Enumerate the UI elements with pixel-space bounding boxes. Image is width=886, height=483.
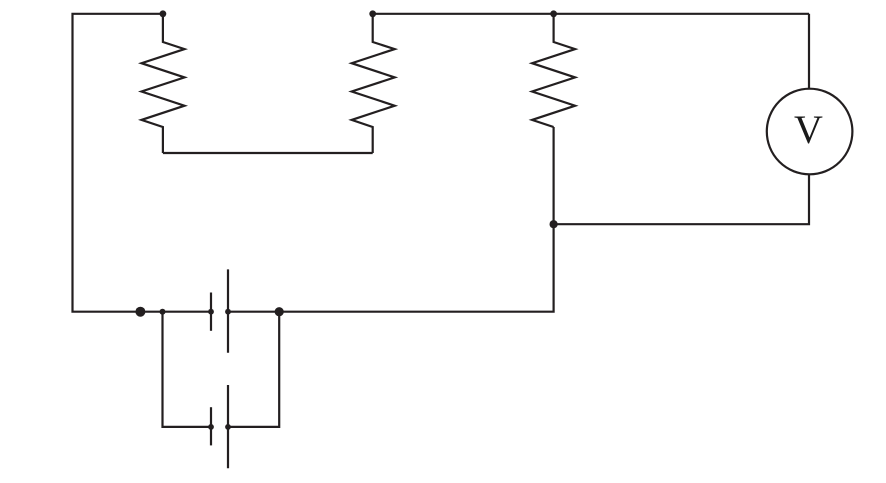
resistor R3	[532, 14, 575, 127]
node dot b (large, bottom rail right)	[275, 307, 284, 316]
wire voltmeter top lead	[808, 14, 810, 89]
wire lower battery branch left (down from split node to B2 short plate)	[163, 312, 212, 427]
wire top (R2 node across R3 node to top-right corner)	[373, 13, 809, 15]
wire voltmeter bottom lead to tap node	[554, 174, 809, 224]
battery B2 short plate	[210, 407, 212, 445]
battery B2 long plate	[227, 385, 229, 468]
wire R1 bottom to R2 bottom	[163, 152, 373, 154]
node dot voltmeter tap	[550, 220, 558, 228]
node dot branch split	[160, 309, 166, 315]
contact dot B2 short plate	[208, 424, 214, 430]
battery B1 short plate	[210, 293, 212, 331]
node dot a (large, bottom rail)	[135, 307, 145, 317]
wire top-left (node A to left corner, down left side, along bottom to battery)	[73, 14, 212, 312]
voltmeter U1 circle	[767, 89, 853, 175]
svg-text:V: V	[794, 107, 823, 152]
node dot R3 top	[550, 10, 557, 17]
battery B1 long plate	[227, 269, 229, 352]
contact dot B1 short plate	[208, 309, 214, 315]
contact dot B1 long plate	[225, 309, 231, 315]
resistor R2	[352, 14, 395, 153]
wire lower battery branch right (B2 long plate up to node b)	[228, 312, 279, 427]
resistor R1	[142, 14, 185, 153]
contact dot B2 long plate	[225, 424, 231, 430]
node dot R2 top	[369, 10, 376, 17]
wire R3 bottom lead down to bottom rail and left to battery long plate	[228, 127, 554, 312]
node dot R1 top	[160, 10, 167, 17]
